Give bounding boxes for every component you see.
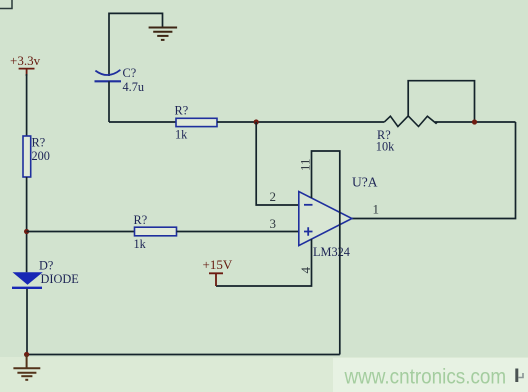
svg-text:3: 3: [270, 216, 277, 231]
resistor R? 200: [23, 136, 50, 178]
svg-text:+3.3v: +3.3v: [10, 53, 41, 68]
power +15V: [203, 257, 233, 286]
svg-text:R?: R?: [175, 104, 189, 118]
wire bottom rail: [27, 354, 340, 356]
power +3.3v: [10, 53, 41, 76]
watermark www.cntronics.com: [344, 366, 507, 389]
wire: [109, 121, 176, 123]
svg-text:C?: C?: [123, 66, 137, 80]
wire pin11 route: [312, 151, 340, 355]
diode D? DIODE: [12, 259, 79, 288]
node junction: [254, 119, 259, 124]
wire: [26, 74, 28, 136]
op-amp U?A LM324: [299, 175, 378, 260]
svg-text:DIODE: DIODE: [41, 272, 79, 286]
wire: [109, 13, 163, 76]
svg-text:1k: 1k: [134, 237, 147, 251]
wire pin3 route: [177, 231, 299, 233]
svg-text:R?: R?: [134, 213, 148, 227]
node junction: [24, 229, 29, 234]
wire: [26, 177, 28, 272]
wire pin4 route: [216, 239, 312, 286]
ground: [13, 355, 40, 380]
wire: [26, 289, 28, 355]
svg-text:LM324: LM324: [313, 245, 350, 259]
svg-text:4.7u: 4.7u: [123, 80, 145, 94]
wire pin2 route: [256, 122, 299, 205]
wire: [435, 121, 516, 123]
resistor R? 1k top: [175, 104, 218, 142]
svg-text:U?A: U?A: [352, 175, 378, 190]
node junction: [472, 119, 477, 124]
svg-text:D?: D?: [39, 259, 53, 273]
node junction: [24, 352, 29, 357]
resistor R? 1k bottom: [134, 213, 177, 251]
svg-text:2: 2: [270, 189, 277, 204]
wire: [27, 231, 135, 233]
svg-text:4: 4: [298, 267, 313, 274]
svg-text:+15V: +15V: [203, 257, 233, 272]
resistor R? 10k: [376, 116, 438, 154]
wire wiper route: [408, 81, 474, 122]
wire output route: [352, 122, 516, 219]
capacitor C? 4.7u: [95, 66, 145, 94]
svg-text:1k: 1k: [175, 128, 188, 142]
svg-text:11: 11: [298, 158, 313, 171]
wire: [108, 81, 110, 122]
svg-text:1: 1: [373, 202, 380, 217]
svg-text:R?: R?: [32, 136, 46, 150]
svg-text:www.cntronics.com: www.cntronics.com: [344, 366, 507, 389]
wire: [217, 121, 385, 123]
ground: [149, 28, 178, 40]
svg-text:10k: 10k: [376, 140, 395, 154]
svg-text:200: 200: [32, 149, 50, 163]
cursor icon: [515, 369, 523, 383]
